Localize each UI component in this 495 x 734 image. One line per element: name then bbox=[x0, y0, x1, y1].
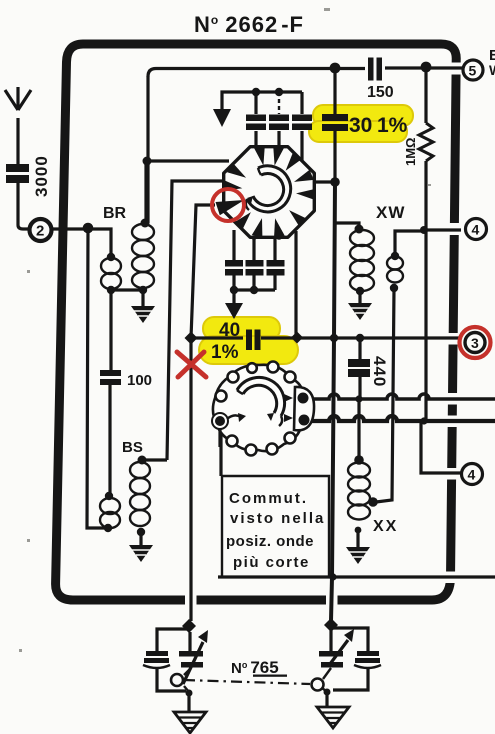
svg-text:Commut.: Commut. bbox=[229, 490, 308, 507]
svg-text:2: 2 bbox=[36, 223, 44, 240]
svg-text:BS: BS bbox=[122, 439, 143, 456]
svg-text:BR: BR bbox=[103, 205, 127, 222]
svg-text:No765: No765 bbox=[231, 658, 279, 677]
svg-text:30: 30 bbox=[349, 114, 372, 137]
svg-text:visto nella: visto nella bbox=[230, 510, 325, 527]
svg-text:40: 40 bbox=[219, 320, 240, 341]
svg-text:1%: 1% bbox=[377, 114, 408, 137]
svg-text:posiz. onde: posiz. onde bbox=[226, 533, 314, 550]
svg-text:più corte: più corte bbox=[233, 554, 310, 571]
svg-text:100: 100 bbox=[127, 372, 152, 389]
svg-text:1MΩ: 1MΩ bbox=[403, 138, 418, 166]
svg-text:3000: 3000 bbox=[32, 155, 51, 197]
svg-text:XW: XW bbox=[376, 203, 405, 222]
svg-text:1%: 1% bbox=[211, 342, 239, 363]
svg-text:No2662-F: No2662-F bbox=[194, 12, 304, 37]
svg-text:XX: XX bbox=[373, 518, 398, 535]
svg-text:3: 3 bbox=[471, 335, 479, 351]
svg-text:150: 150 bbox=[367, 84, 394, 101]
svg-text:4: 4 bbox=[468, 467, 476, 483]
svg-text:W: W bbox=[489, 62, 495, 78]
svg-text:5: 5 bbox=[469, 63, 477, 79]
svg-text:4: 4 bbox=[472, 222, 480, 238]
svg-text:440: 440 bbox=[370, 356, 389, 387]
